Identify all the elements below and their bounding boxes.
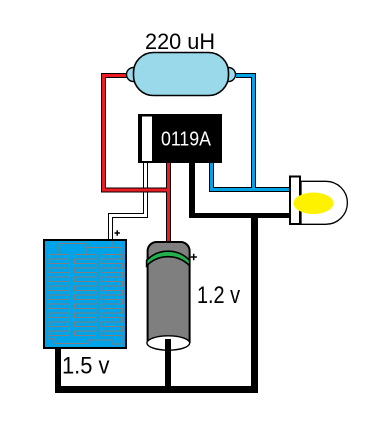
svg-text:1.2 v: 1.2 v — [197, 282, 240, 309]
svg-text:1.5 v: 1.5 v — [62, 353, 110, 380]
svg-text:0119A: 0119A — [161, 127, 211, 150]
svg-text:220 uH: 220 uH — [145, 29, 215, 54]
